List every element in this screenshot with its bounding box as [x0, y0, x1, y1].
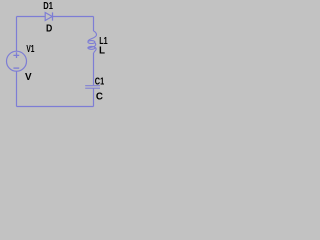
- svg-text:L: L: [99, 45, 105, 56]
- svg-text:D: D: [46, 23, 52, 34]
- svg-text:C1: C1: [95, 76, 105, 87]
- svg-text:D1: D1: [43, 1, 53, 12]
- svg-text:V: V: [25, 72, 32, 83]
- svg-text:V1: V1: [26, 44, 34, 55]
- svg-text:C: C: [96, 92, 103, 103]
